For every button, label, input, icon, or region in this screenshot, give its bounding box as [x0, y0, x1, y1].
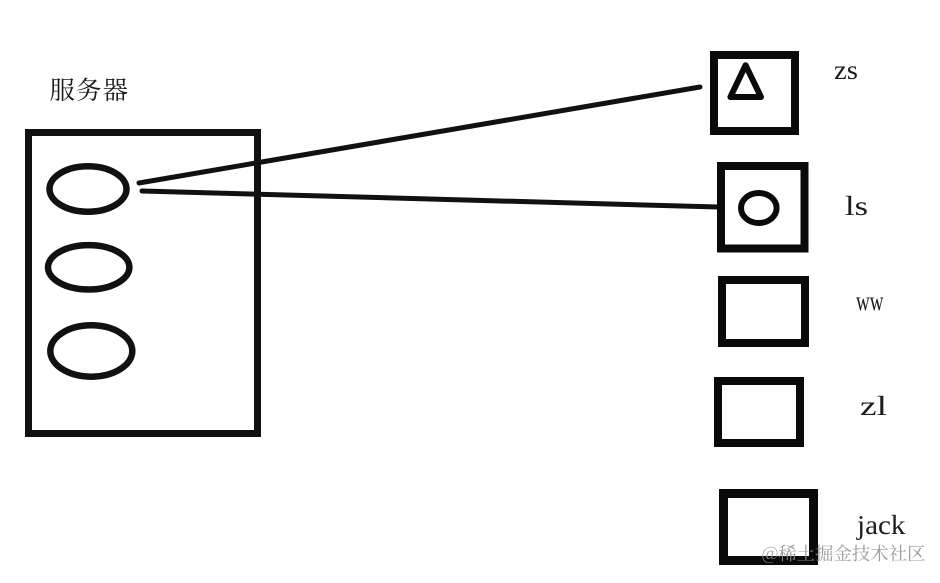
client box ls	[721, 166, 805, 249]
svg-text:ww: ww	[856, 286, 884, 316]
svg-text:zs: zs	[834, 55, 858, 85]
svg-text:zl: zl	[860, 391, 887, 421]
circle icon	[741, 193, 777, 223]
wire to ls	[142, 191, 718, 207]
wire to zs	[139, 87, 700, 183]
server label 服务器	[50, 78, 127, 102]
ellipse port 1	[50, 166, 127, 211]
svg-text:jack: jack	[856, 510, 906, 540]
client box jack	[724, 494, 814, 561]
triangle icon	[730, 65, 761, 97]
svg-text:ls: ls	[845, 191, 868, 221]
client box zs	[714, 55, 795, 131]
ellipse port 2	[48, 245, 129, 289]
ellipse port 3	[50, 325, 132, 376]
client box zl	[718, 381, 800, 443]
server box	[29, 133, 258, 434]
client box ww	[722, 280, 805, 343]
watermark	[762, 544, 924, 563]
